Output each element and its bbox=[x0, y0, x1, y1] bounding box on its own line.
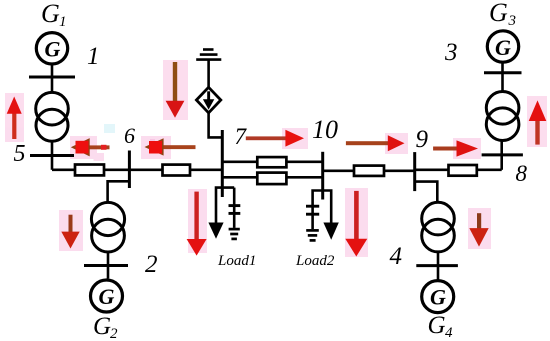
svg-text:3: 3 bbox=[508, 13, 517, 29]
svg-text:G: G bbox=[93, 313, 111, 340]
svg-text:6: 6 bbox=[124, 123, 135, 148]
svg-text:1: 1 bbox=[87, 43, 100, 70]
svg-text:2: 2 bbox=[110, 326, 118, 341]
svg-text:7: 7 bbox=[235, 124, 248, 149]
svg-text:G: G bbox=[99, 284, 115, 309]
svg-text:4: 4 bbox=[390, 243, 403, 270]
svg-text:9: 9 bbox=[416, 126, 429, 153]
svg-text:G: G bbox=[41, 0, 60, 28]
svg-text:8: 8 bbox=[516, 161, 528, 186]
svg-text:5: 5 bbox=[14, 141, 26, 167]
svg-text:G: G bbox=[430, 285, 446, 310]
svg-text:1: 1 bbox=[59, 14, 67, 30]
svg-text:Load1: Load1 bbox=[217, 253, 256, 269]
svg-text:G: G bbox=[495, 35, 511, 60]
svg-text:G: G bbox=[428, 312, 446, 339]
svg-text:2: 2 bbox=[145, 251, 158, 278]
svg-text:4: 4 bbox=[445, 325, 453, 341]
svg-text:G: G bbox=[489, 0, 508, 27]
svg-text:10: 10 bbox=[312, 115, 338, 144]
svg-text:Load2: Load2 bbox=[295, 253, 335, 269]
svg-text:3: 3 bbox=[444, 39, 458, 66]
svg-text:G: G bbox=[45, 37, 61, 62]
